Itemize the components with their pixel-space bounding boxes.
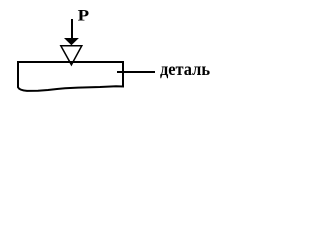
svg-text:P: P xyxy=(78,8,90,25)
svg-text:деталь: деталь xyxy=(160,59,210,79)
